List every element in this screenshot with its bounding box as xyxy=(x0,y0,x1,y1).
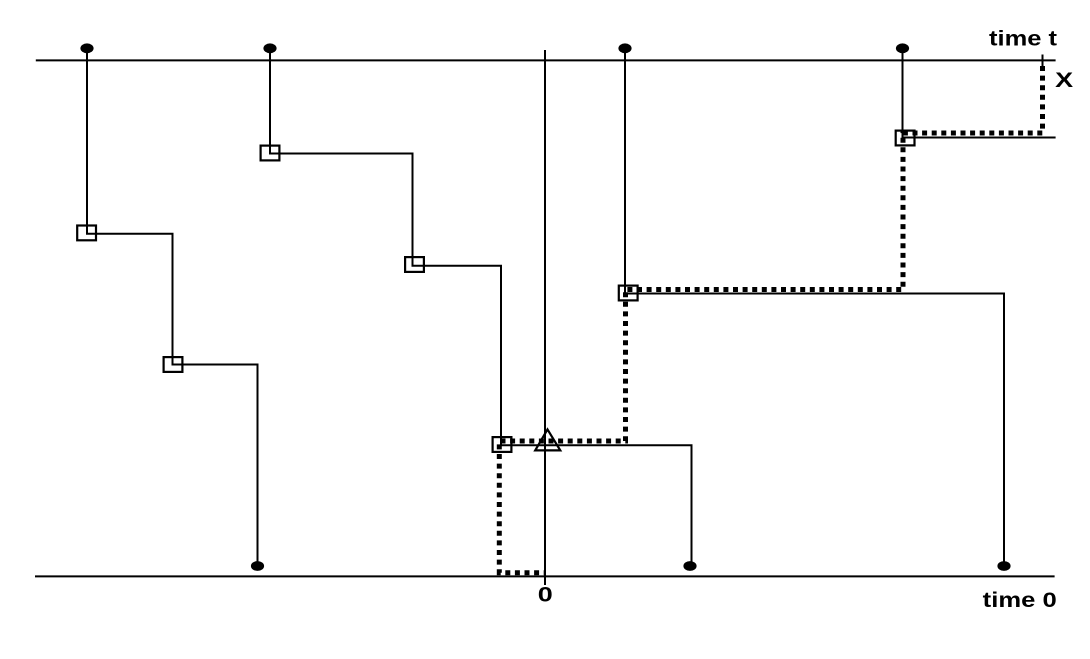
svg-text:X: X xyxy=(1055,68,1074,92)
svg-text:time 0: time 0 xyxy=(983,588,1057,612)
svg-text:time t: time t xyxy=(989,27,1057,51)
svg-text:0: 0 xyxy=(538,582,553,606)
